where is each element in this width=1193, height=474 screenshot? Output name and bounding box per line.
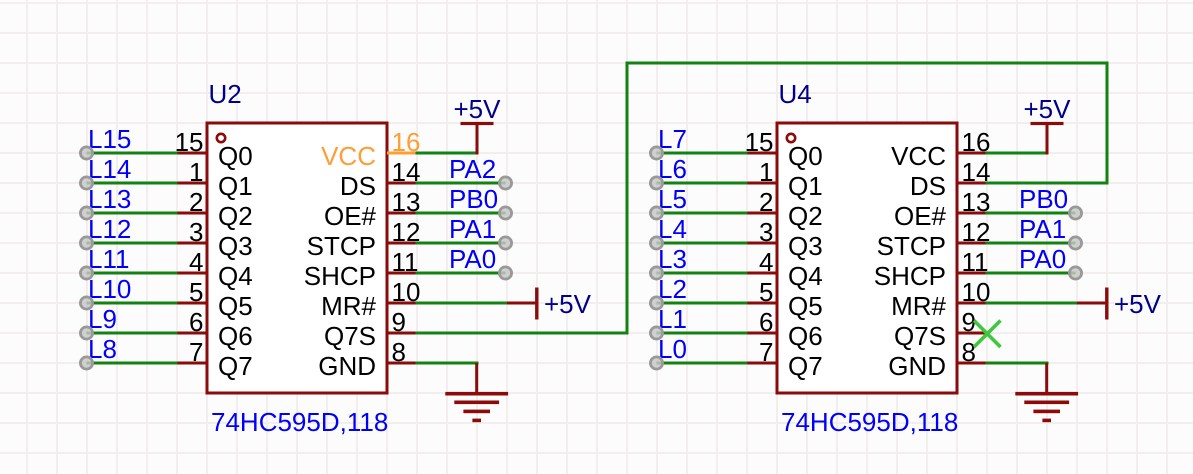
U2 pin number 1 bbox=[189, 157, 203, 187]
U4 pin name OE# bbox=[894, 201, 947, 231]
net label L12 bbox=[88, 214, 131, 244]
wire U2 to net PB0 bbox=[416, 212, 506, 215]
U4 pin number 16 bbox=[962, 127, 991, 157]
svg-text:15: 15 bbox=[745, 127, 774, 157]
svg-text:74HC595D,118: 74HC595D,118 bbox=[211, 407, 388, 437]
svg-text:14: 14 bbox=[962, 157, 991, 187]
U4 pin number 12 bbox=[962, 217, 991, 247]
wire net L5 to U4 Q2 bbox=[657, 212, 748, 215]
unconnected terminal dot of net L11 bbox=[80, 267, 92, 279]
value label 74HC595D,118 for U2 bbox=[211, 407, 388, 437]
svg-text:Q7: Q7 bbox=[788, 351, 823, 381]
svg-text:PA0: PA0 bbox=[1019, 244, 1066, 274]
U2 pin name VCC bbox=[321, 141, 376, 171]
ground symbol at U4 GND bbox=[1015, 363, 1078, 422]
U2 pin 15 (Q0) stub bbox=[178, 152, 208, 155]
net label L1 bbox=[658, 304, 687, 334]
unconnected terminal dot of net L13 bbox=[80, 207, 92, 219]
IC U2 74HC595D body outline bbox=[207, 123, 387, 393]
U4 pin number 13 bbox=[962, 187, 991, 217]
U4 pin 15 (Q0) stub bbox=[748, 152, 778, 155]
svg-text:Q4: Q4 bbox=[788, 261, 823, 291]
svg-text:5: 5 bbox=[759, 277, 773, 307]
unconnected terminal dot of net L8 bbox=[80, 357, 92, 369]
svg-text:Q4: Q4 bbox=[218, 261, 253, 291]
svg-text:3: 3 bbox=[759, 217, 773, 247]
net label PA1 bbox=[449, 214, 496, 244]
unconnected terminal dot of net PA1 (U4) bbox=[1069, 237, 1081, 249]
svg-text:STCP: STCP bbox=[307, 231, 376, 261]
svg-text:+5V: +5V bbox=[1024, 94, 1072, 124]
wire U2 to net PA2 bbox=[416, 182, 506, 185]
net label PA0 bbox=[449, 244, 496, 274]
U4 pin number 8 bbox=[962, 337, 976, 367]
svg-text:L10: L10 bbox=[88, 274, 131, 304]
unconnected terminal dot of net L5 bbox=[650, 207, 662, 219]
unconnected terminal dot of net L15 bbox=[80, 147, 92, 159]
U4 pin 10 (MR#) stub bbox=[957, 302, 986, 305]
svg-text:2: 2 bbox=[759, 187, 773, 217]
U4 pin number 1 bbox=[759, 157, 773, 187]
U2 pin number 11 bbox=[392, 247, 419, 277]
U4 pin name Q4 bbox=[788, 261, 823, 291]
svg-text:11: 11 bbox=[962, 247, 989, 277]
svg-text:L15: L15 bbox=[88, 124, 131, 154]
U2 pin number 8 bbox=[392, 337, 406, 367]
svg-text:15: 15 bbox=[175, 127, 204, 157]
svg-text:VCC: VCC bbox=[321, 141, 376, 171]
value label 74HC595D,118 for U4 bbox=[781, 407, 958, 437]
U2 pin 6 (Q6) stub bbox=[178, 332, 208, 335]
svg-text:PA1: PA1 bbox=[449, 214, 496, 244]
U2 pin name GND bbox=[318, 351, 376, 381]
wire net L1 to U4 Q6 bbox=[657, 332, 748, 335]
svg-text:STCP: STCP bbox=[877, 231, 946, 261]
U4 pin name Q6 bbox=[788, 321, 823, 351]
U4 pin name STCP bbox=[877, 231, 946, 261]
U4 pin name VCC bbox=[891, 141, 946, 171]
wire U2 VCC pin16 to +5V bbox=[416, 152, 478, 155]
unconnected terminal dot of net L4 bbox=[650, 237, 662, 249]
svg-text:Q5: Q5 bbox=[218, 291, 253, 321]
U2 pin 11 (SHCP) stub bbox=[387, 272, 416, 275]
U4 pin 5 (Q5) stub bbox=[748, 302, 778, 305]
svg-text:GND: GND bbox=[888, 351, 946, 381]
power flag +5V at U2 VCC bbox=[461, 122, 494, 155]
net label L15 bbox=[88, 124, 131, 154]
net label L7 bbox=[658, 124, 687, 154]
wire net L2 to U4 Q5 bbox=[657, 302, 748, 305]
wire net L0 to U4 Q7 bbox=[657, 362, 748, 365]
U2 pin name Q4 bbox=[218, 261, 253, 291]
net label L3 bbox=[658, 244, 687, 274]
U4 pin 6 (Q6) stub bbox=[748, 332, 778, 335]
+5V label at U2 VCC bbox=[454, 94, 502, 124]
net label PB0 bbox=[449, 184, 498, 214]
svg-text:Q0: Q0 bbox=[218, 141, 253, 171]
U4 pin number 3 bbox=[759, 217, 773, 247]
U4 pin 13 (OE#) stub bbox=[957, 212, 986, 215]
svg-text:Q1: Q1 bbox=[218, 171, 253, 201]
wire U2 Q7S horizontal run bbox=[416, 332, 629, 335]
U2 pin 14 (DS) stub bbox=[387, 182, 416, 185]
U4 pin 16 (VCC) stub bbox=[957, 152, 986, 155]
unconnected terminal dot of net L9 bbox=[80, 327, 92, 339]
U2 pin 3 (Q3) stub bbox=[178, 242, 208, 245]
net label L9 bbox=[88, 304, 117, 334]
wire U2 MR# to +5V bbox=[416, 302, 508, 305]
net label L13 bbox=[88, 184, 131, 214]
svg-text:+5V: +5V bbox=[1114, 289, 1162, 319]
unconnected terminal dot of net L3 bbox=[650, 267, 662, 279]
wire U2 to net PA1 bbox=[416, 242, 506, 245]
svg-text:OE#: OE# bbox=[324, 201, 377, 231]
U4 pin 3 (Q3) stub bbox=[748, 242, 778, 245]
U4 pin-1 indicator dot bbox=[787, 134, 795, 142]
U2 pin name SHCP bbox=[304, 261, 376, 291]
unconnected terminal dot of net L12 bbox=[80, 237, 92, 249]
U2 pin number 12 bbox=[392, 217, 421, 247]
svg-text:Q6: Q6 bbox=[218, 321, 253, 351]
U2 pin name Q0 bbox=[218, 141, 253, 171]
wire U4 to net PB0 bbox=[986, 212, 1076, 215]
U2 pin name STCP bbox=[307, 231, 376, 261]
unconnected terminal dot of net PB0 (U4) bbox=[1069, 207, 1081, 219]
U2 pin number 7 bbox=[189, 337, 203, 367]
U2 pin number 16 bbox=[392, 127, 421, 157]
wire U4 to net PA1 bbox=[986, 242, 1076, 245]
U4 pin 4 (Q4) stub bbox=[748, 272, 778, 275]
U4 pin name Q7S bbox=[894, 321, 946, 351]
U4 pin number 11 bbox=[962, 247, 989, 277]
svg-text:SHCP: SHCP bbox=[304, 261, 376, 291]
net label PB0 (U4) bbox=[1019, 184, 1068, 214]
U4 pin number 2 bbox=[759, 187, 773, 217]
U4 pin name Q5 bbox=[788, 291, 823, 321]
U2 pin 4 (Q4) stub bbox=[178, 272, 208, 275]
svg-text:L14: L14 bbox=[88, 154, 131, 184]
U2 pin number 5 bbox=[189, 277, 203, 307]
svg-text:PA0: PA0 bbox=[449, 244, 496, 274]
svg-text:+5V: +5V bbox=[544, 289, 592, 319]
U4 pin 1 (Q1) stub bbox=[748, 182, 778, 185]
U2 pin 16 (VCC) stub bbox=[387, 152, 416, 155]
svg-text:SHCP: SHCP bbox=[874, 261, 946, 291]
U2 pin name OE# bbox=[324, 201, 377, 231]
wire net L3 to U4 Q4 bbox=[657, 272, 748, 275]
svg-text:1: 1 bbox=[189, 157, 203, 187]
net label L6 bbox=[658, 154, 687, 184]
designator U4 bbox=[779, 79, 812, 109]
U4 pin 7 (Q7) stub bbox=[748, 362, 778, 365]
svg-text:9: 9 bbox=[392, 307, 406, 337]
U2 pin number 2 bbox=[189, 187, 203, 217]
svg-text:PB0: PB0 bbox=[449, 184, 498, 214]
svg-text:DS: DS bbox=[910, 171, 946, 201]
U2 pin name Q7S bbox=[324, 321, 376, 351]
U4 pin name MR# bbox=[891, 291, 946, 321]
U2 pin 13 (OE#) stub bbox=[387, 212, 416, 215]
U4 pin number 5 bbox=[759, 277, 773, 307]
U4 pin name SHCP bbox=[874, 261, 946, 291]
U4 pin number 7 bbox=[759, 337, 773, 367]
wire net L8 to U2 Q7 bbox=[87, 362, 178, 365]
svg-text:GND: GND bbox=[318, 351, 376, 381]
svg-text:Q6: Q6 bbox=[788, 321, 823, 351]
unconnected terminal dot of net L2 bbox=[650, 297, 662, 309]
U2 pin number 15 bbox=[175, 127, 204, 157]
svg-text:Q0: Q0 bbox=[788, 141, 823, 171]
wire net L10 to U2 Q5 bbox=[87, 302, 178, 305]
svg-text:4: 4 bbox=[759, 247, 773, 277]
svg-text:11: 11 bbox=[392, 247, 419, 277]
wire net L13 to U2 Q2 bbox=[87, 212, 178, 215]
svg-text:PB0: PB0 bbox=[1019, 184, 1068, 214]
svg-text:Q7S: Q7S bbox=[324, 321, 376, 351]
svg-text:1: 1 bbox=[759, 157, 773, 187]
wire U4 VCC pin16 to +5V bbox=[986, 152, 1048, 155]
svg-text:Q1: Q1 bbox=[788, 171, 823, 201]
svg-text:MR#: MR# bbox=[891, 291, 946, 321]
unconnected terminal dot of net L7 bbox=[650, 147, 662, 159]
wire U4 to net PA0 bbox=[986, 272, 1076, 275]
svg-text:Q2: Q2 bbox=[788, 201, 823, 231]
svg-text:3: 3 bbox=[189, 217, 203, 247]
svg-text:Q7S: Q7S bbox=[894, 321, 946, 351]
U4 pin number 14 bbox=[962, 157, 991, 187]
U4 pin name Q1 bbox=[788, 171, 823, 201]
U4 pin name Q3 bbox=[788, 231, 823, 261]
U4 pin 12 (STCP) stub bbox=[957, 242, 986, 245]
svg-text:L11: L11 bbox=[88, 244, 129, 274]
U2 pin name Q5 bbox=[218, 291, 253, 321]
svg-text:7: 7 bbox=[189, 337, 203, 367]
ground symbol at U2 GND bbox=[445, 363, 508, 422]
wire net L11 to U2 Q4 bbox=[87, 272, 178, 275]
+5V label at U2 MR# bbox=[544, 289, 592, 319]
wire U2 GND pin8 to ground bbox=[416, 362, 479, 365]
net label L0 bbox=[658, 334, 687, 364]
unconnected terminal dot of net L1 bbox=[650, 327, 662, 339]
U4 pin name Q7 bbox=[788, 351, 823, 381]
wire net L12 to U2 Q3 bbox=[87, 242, 178, 245]
wire U4 GND pin8 to ground bbox=[986, 362, 1049, 365]
U4 pin number 6 bbox=[759, 307, 773, 337]
U2 pin name Q1 bbox=[218, 171, 253, 201]
+5V label at U4 MR# bbox=[1114, 289, 1162, 319]
svg-text:L12: L12 bbox=[88, 214, 131, 244]
net label L10 bbox=[88, 274, 131, 304]
designator U2 bbox=[209, 79, 242, 109]
svg-text:2: 2 bbox=[189, 187, 203, 217]
svg-text:+5V: +5V bbox=[454, 94, 502, 124]
wire U4 MR# to +5V bbox=[986, 302, 1078, 305]
unconnected terminal dot of net L14 bbox=[80, 177, 92, 189]
U4 pin number 4 bbox=[759, 247, 773, 277]
svg-text:Q3: Q3 bbox=[218, 231, 253, 261]
svg-text:6: 6 bbox=[759, 307, 773, 337]
U2 pin 7 (Q7) stub bbox=[178, 362, 208, 365]
net label PA2 bbox=[449, 154, 496, 184]
U2 pin 10 (MR#) stub bbox=[387, 302, 416, 305]
wire net L15 to U2 Q0 bbox=[87, 152, 178, 155]
svg-text:U2: U2 bbox=[209, 79, 242, 109]
wire U2 to net PA0 bbox=[416, 272, 506, 275]
U2 pin 2 (Q2) stub bbox=[178, 212, 208, 215]
svg-text:Q7: Q7 bbox=[218, 351, 253, 381]
wire net L7 to U4 Q0 bbox=[657, 152, 748, 155]
wire net L14 to U2 Q1 bbox=[87, 182, 178, 185]
U2 pin number 6 bbox=[189, 307, 203, 337]
U4 pin 2 (Q2) stub bbox=[748, 212, 778, 215]
unconnected terminal dot of net PB0 (U2) bbox=[499, 207, 511, 219]
svg-text:74HC595D,118: 74HC595D,118 bbox=[781, 407, 958, 437]
U4 pin 9 (Q7S) stub bbox=[957, 332, 986, 335]
wire net L6 to U4 Q1 bbox=[657, 182, 748, 185]
U2 pin number 4 bbox=[189, 247, 203, 277]
U2 pin name Q2 bbox=[218, 201, 253, 231]
svg-text:OE#: OE# bbox=[894, 201, 947, 231]
svg-text:8: 8 bbox=[392, 337, 406, 367]
unconnected terminal dot of net PA2 (U2) bbox=[499, 177, 511, 189]
no-connect flag on U4 Q7S pin9 bbox=[974, 321, 1001, 348]
U4 pin name Q0 bbox=[788, 141, 823, 171]
U2 pin number 14 bbox=[392, 157, 421, 187]
U4 pin name Q2 bbox=[788, 201, 823, 231]
svg-text:Q5: Q5 bbox=[788, 291, 823, 321]
net label L11 bbox=[88, 244, 129, 274]
svg-text:PA2: PA2 bbox=[449, 154, 496, 184]
svg-text:6: 6 bbox=[189, 307, 203, 337]
U4 pin name DS bbox=[910, 171, 946, 201]
svg-text:MR#: MR# bbox=[321, 291, 376, 321]
U4 pin number 15 bbox=[745, 127, 774, 157]
U2 pin 12 (STCP) stub bbox=[387, 242, 416, 245]
power flag +5V at U4 VCC bbox=[1031, 122, 1064, 155]
U4 pin number 9 bbox=[962, 307, 976, 337]
svg-text:Q3: Q3 bbox=[788, 231, 823, 261]
power flag +5V at U2 MR# bbox=[507, 288, 539, 320]
U2 pin 1 (Q1) stub bbox=[178, 182, 208, 185]
svg-text:U4: U4 bbox=[779, 79, 812, 109]
U2 pin 9 (Q7S) stub bbox=[387, 332, 416, 335]
U2 pin number 10 bbox=[392, 277, 421, 307]
U4 pin number 10 bbox=[962, 277, 991, 307]
U4 pin 8 (GND) stub bbox=[957, 362, 986, 365]
U2 pin number 9 bbox=[392, 307, 406, 337]
IC U4 74HC595D body outline bbox=[777, 123, 957, 393]
unconnected terminal dot of net L10 bbox=[80, 297, 92, 309]
svg-text:Q2: Q2 bbox=[218, 201, 253, 231]
svg-text:5: 5 bbox=[189, 277, 203, 307]
svg-text:8: 8 bbox=[962, 337, 976, 367]
U2 pin number 3 bbox=[189, 217, 203, 247]
svg-text:L13: L13 bbox=[88, 184, 131, 214]
unconnected terminal dot of net L0 bbox=[650, 357, 662, 369]
net label L8 bbox=[88, 334, 117, 364]
+5V label at U4 VCC bbox=[1024, 94, 1072, 124]
power flag +5V at U4 MR# bbox=[1077, 288, 1109, 320]
U2 pin name DS bbox=[340, 171, 376, 201]
unconnected terminal dot of net PA1 (U2) bbox=[499, 237, 511, 249]
svg-text:VCC: VCC bbox=[891, 141, 946, 171]
net label L14 bbox=[88, 154, 131, 184]
net label PA0 (U4) bbox=[1019, 244, 1066, 274]
U2 pin-1 indicator dot bbox=[217, 134, 225, 142]
svg-text:4: 4 bbox=[189, 247, 203, 277]
net label L2 bbox=[658, 274, 687, 304]
unconnected terminal dot of net L6 bbox=[650, 177, 662, 189]
wire vertical drop at x=1107 bbox=[1106, 62, 1109, 185]
svg-text:DS: DS bbox=[340, 171, 376, 201]
U4 pin name GND bbox=[888, 351, 946, 381]
U2 pin name Q7 bbox=[218, 351, 253, 381]
U2 pin 8 (GND) stub bbox=[387, 362, 416, 365]
wire top horizontal run y=63 bbox=[626, 62, 1109, 65]
wire net L4 to U4 Q3 bbox=[657, 242, 748, 245]
U4 pin 14 (DS) stub bbox=[957, 182, 986, 185]
U2 pin name Q3 bbox=[218, 231, 253, 261]
wire into U4 DS pin14 bbox=[986, 182, 1109, 185]
wire net L9 to U2 Q6 bbox=[87, 332, 178, 335]
svg-text:7: 7 bbox=[759, 337, 773, 367]
U2 pin number 13 bbox=[392, 187, 421, 217]
unconnected terminal dot of net PA0 (U2) bbox=[499, 267, 511, 279]
wire vertical rise at x=627 bbox=[626, 62, 629, 335]
U2 pin 5 (Q5) stub bbox=[178, 302, 208, 305]
net label L4 bbox=[658, 214, 687, 244]
net label PA1 (U4) bbox=[1019, 214, 1066, 244]
unconnected terminal dot of net PA0 (U4) bbox=[1069, 267, 1081, 279]
U2 pin name Q6 bbox=[218, 321, 253, 351]
svg-text:PA1: PA1 bbox=[1019, 214, 1066, 244]
U4 pin 11 (SHCP) stub bbox=[957, 272, 986, 275]
U2 pin name MR# bbox=[321, 291, 376, 321]
net label L5 bbox=[658, 184, 687, 214]
